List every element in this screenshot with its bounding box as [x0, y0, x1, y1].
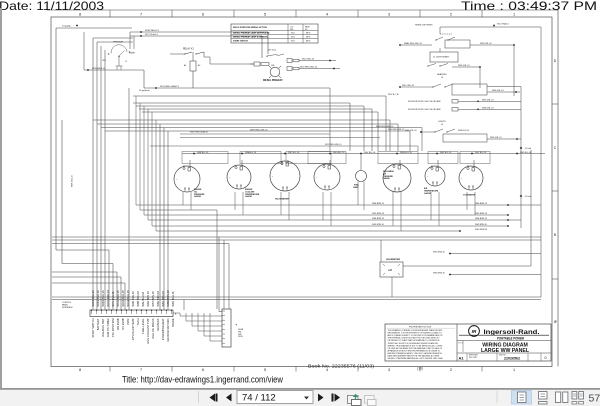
- svg-text:74 / 112: 74 / 112: [242, 393, 276, 404]
- svg-text:57.: 57.: [589, 393, 600, 405]
